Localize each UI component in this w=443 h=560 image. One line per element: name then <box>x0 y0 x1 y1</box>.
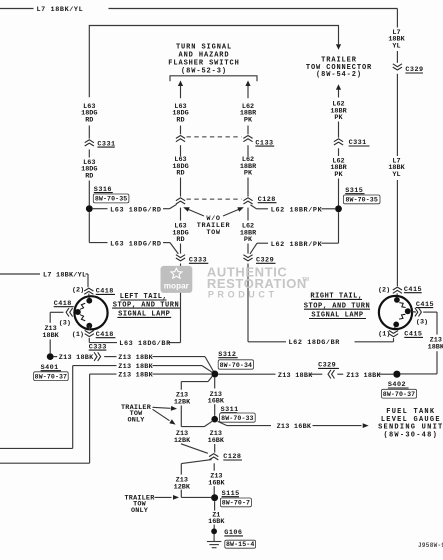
svg-text:PK: PK <box>244 236 253 244</box>
svg-text:(8W-54-2): (8W-54-2) <box>316 71 362 79</box>
svg-text:L62 18BR/PK: L62 18BR/PK <box>271 241 323 249</box>
right lamp terminal bottom <box>393 322 399 328</box>
wire right column above C329 <box>396 51 398 63</box>
connector C415 pin 2 (right lamp top) <box>378 286 422 295</box>
svg-text:ONLY: ONLY <box>131 507 149 515</box>
wire right lamp pin 3 to S402 (Z13 18BK) <box>401 312 443 374</box>
svg-text:L62 18BR/PK: L62 18BR/PK <box>271 206 323 214</box>
wire col1 segment <box>88 126 90 139</box>
connector C133 chevron col2 <box>176 136 185 142</box>
wire S316 to C128 left pin (L63 18DG/RD) <box>93 204 177 214</box>
wire col2 below C128 <box>180 208 182 221</box>
wire col3 below C128 <box>247 208 249 221</box>
wire right column below C329 <box>396 74 398 156</box>
wire left lamp pin 3 down to S401 (Z13 18BK) <box>42 312 63 353</box>
label TRAILER TOW CONNECTOR <box>306 57 372 79</box>
callout arrow to Z13 12BK wire <box>153 406 178 411</box>
svg-text:LEVEL GAUGE: LEVEL GAUGE <box>381 416 441 424</box>
label L62 18BR PK (col3 mid) <box>240 156 257 177</box>
wire left loop B to S312 (Z13 18BK) <box>0 372 211 464</box>
connector C331 (col1) <box>85 140 116 149</box>
wire col2 segment 2 <box>180 145 182 156</box>
splice S315 junction dot <box>335 205 342 212</box>
wire col4 segment 2 <box>338 148 340 156</box>
svg-text:8W-70-7: 8W-70-7 <box>222 500 250 507</box>
splice S401 junction dot <box>47 353 54 360</box>
svg-text:RD: RD <box>176 236 184 244</box>
svg-text:PK: PK <box>244 116 253 124</box>
splice S311 label <box>220 406 256 422</box>
wire col3 segment <box>247 126 249 135</box>
label L7 18BK YL (right column) <box>388 29 405 50</box>
splice S315 label <box>343 187 380 204</box>
label L62 18BR PK (col4 lower) <box>330 157 347 178</box>
wire Z13 12BK segment <box>180 406 182 427</box>
connector C333 (col2) <box>176 255 208 265</box>
svg-text:L62 18DG/BR: L62 18DG/BR <box>289 339 341 347</box>
svg-text:(3): (3) <box>59 319 71 327</box>
ground symbol <box>207 534 222 548</box>
callout arrow to S115 wire <box>155 495 180 500</box>
ground G106 label <box>224 529 255 548</box>
svg-text:8W-70-35: 8W-70-35 <box>95 196 127 203</box>
svg-text:12BK: 12BK <box>174 483 191 491</box>
svg-text:RD: RD <box>85 172 93 180</box>
splice S402 label <box>381 381 416 398</box>
left lamp bulb outline <box>74 296 107 329</box>
svg-text:L7 18BK/YL: L7 18BK/YL <box>37 6 84 14</box>
svg-text:L63 18DG/BR: L63 18DG/BR <box>119 340 171 348</box>
svg-text:ONLY: ONLY <box>127 416 145 424</box>
connector C128 dashed line and label <box>187 196 277 204</box>
svg-text:RD: RD <box>85 116 93 124</box>
wire Z13 12BK diagonal into C128 <box>181 444 208 454</box>
wire L7 18BK/YL feed to left lamp pin 2 <box>0 272 88 288</box>
svg-text:Z13 18BK: Z13 18BK <box>59 354 94 362</box>
svg-text:(8W-30-48): (8W-30-48) <box>384 432 439 440</box>
wire S315 to C128 right pin (L62 18BR/PK) <box>251 205 336 215</box>
label L62 18BR PK (col4 upper) <box>330 101 347 122</box>
svg-text:AND HAZARD: AND HAZARD <box>178 52 229 60</box>
wire L7 18BK/YL top horizontal run <box>0 6 397 14</box>
label FUEL TANK LEVEL GAUGE SENDING UNIT <box>378 408 443 439</box>
splice S312 junction dot <box>211 371 218 378</box>
splice S402 junction dot <box>393 371 400 378</box>
bracket flasher switch <box>170 76 257 82</box>
label Z13 12BK (below S311 jog) <box>174 430 191 445</box>
right lamp filament lower <box>399 314 405 319</box>
wire arrow col2 into flasher switch <box>178 81 183 99</box>
wire col2 segment <box>180 126 182 135</box>
wire col1 to splice <box>88 181 90 206</box>
wire stub right lamp pin2 into bulb <box>396 293 398 299</box>
label L63 18DG RD (col1 upper) <box>81 103 97 124</box>
connector C329 on Z13 run <box>318 362 339 379</box>
connector C333 on Z13 run label <box>89 343 107 351</box>
connector C329 (col3) <box>243 255 275 265</box>
wire col3 down to right lamp feed <box>248 264 394 348</box>
svg-text:(1): (1) <box>72 331 84 339</box>
wire S312 down to S311 (Z13 16BK) <box>208 378 225 416</box>
svg-text:12BK: 12BK <box>174 398 191 406</box>
wire arrow up into trailer tow connector <box>336 84 341 97</box>
connector C418 pin 3 (left lamp side) <box>54 300 74 327</box>
label W/O TRAILER TOW callout <box>197 215 231 237</box>
wire S401 to S312 (Z13 18BK) <box>54 354 214 371</box>
splice S115 label <box>220 490 251 507</box>
callout arrow to Z13 12BK corner <box>153 409 176 424</box>
svg-text:PK: PK <box>334 171 343 179</box>
svg-text:8W-70-34: 8W-70-34 <box>220 362 252 369</box>
wire right column to right lamp <box>396 180 398 286</box>
svg-text:YL: YL <box>392 42 400 50</box>
svg-text:(1): (1) <box>378 331 390 339</box>
right lamp terminal side <box>405 308 411 314</box>
connector C418 pin 2 (left lamp top) <box>72 287 115 296</box>
svg-text:L63 18DG/RD: L63 18DG/RD <box>110 206 161 214</box>
label L63 18DG RD (col1 lower) <box>81 159 97 180</box>
svg-text:18BK: 18BK <box>42 332 59 340</box>
wire S312 to S402 (Z13 18BK through C329) <box>218 372 393 380</box>
svg-text:8W-70-37: 8W-70-37 <box>383 391 415 398</box>
label L62 18BR PK (col3 upper) <box>240 103 257 124</box>
wire col3 segment 3 <box>247 178 249 197</box>
svg-text:SENDING UNIT: SENDING UNIT <box>378 424 443 432</box>
svg-text:RD: RD <box>176 170 184 178</box>
connector C128 (bottom) <box>209 453 242 461</box>
label L63 18DG RD (col2 mid) <box>172 156 188 177</box>
svg-text:PK: PK <box>334 114 343 122</box>
label J958W page id <box>418 542 443 549</box>
right lamp filament upper <box>399 303 405 308</box>
svg-text:16BK: 16BK <box>208 437 225 445</box>
callout arrow to col2 C128 <box>183 207 204 216</box>
label Z13 16BK (below S311) <box>208 430 225 445</box>
left lamp terminal bottom <box>86 323 92 329</box>
svg-text:PRODUCT: PRODUCT <box>208 290 278 300</box>
svg-text:8W-70-35: 8W-70-35 <box>345 197 377 204</box>
connector C415 pin 3 (right lamp side) <box>415 301 434 327</box>
callout arrow to col3 C128 <box>223 207 244 216</box>
watermark authentic restoration logo <box>161 264 310 299</box>
label LEFT TAIL STOP AND TURN SIGNAL LAMP <box>112 293 180 318</box>
splice S316 label <box>93 186 129 203</box>
wire Z13 16BK into C128 <box>214 444 216 453</box>
svg-text:J958W-9: J958W-9 <box>418 542 443 549</box>
splice S312 label <box>218 351 253 369</box>
svg-text:Z13 18BK: Z13 18BK <box>118 354 153 362</box>
wire col4 to splice <box>338 179 340 206</box>
connector C133 dashed line and label <box>187 137 275 147</box>
svg-text:18BK: 18BK <box>428 343 443 351</box>
label L62 18BR PK (col3 below C128) <box>240 223 257 244</box>
connector C329 (right column in-line) <box>393 64 424 74</box>
svg-text:TURN SIGNAL: TURN SIGNAL <box>176 43 232 51</box>
left lamp filament upper <box>80 303 85 309</box>
wire jog into S311 <box>181 421 212 426</box>
wire branch to trailer tow connector <box>89 26 341 98</box>
splice S115 junction dot <box>211 494 218 501</box>
svg-text:mopar: mopar <box>164 282 190 291</box>
svg-text:8W-70-33: 8W-70-33 <box>221 415 253 422</box>
label TURN SIGNAL AND HAZARD FLASHER SWITCH <box>168 43 239 75</box>
svg-text:8W-15-4: 8W-15-4 <box>226 541 254 548</box>
svg-text:(3): (3) <box>416 319 428 327</box>
splice S316 junction dot <box>86 205 93 212</box>
svg-text:8W-70-37: 8W-70-37 <box>35 373 67 380</box>
svg-text:FUEL TANK: FUEL TANK <box>386 408 435 416</box>
wire left loop A to S312 (Z13 18BK) <box>0 363 212 448</box>
label Z13 12BK (upper) <box>174 392 191 407</box>
connector C331 (col4) <box>334 139 370 147</box>
wire col2 down to left lamp feed <box>89 264 180 349</box>
wire S315 branch down to C329 (L62 18BR/PK) <box>250 212 339 254</box>
wire stub right lamp pin1 from bulb <box>394 325 396 330</box>
wire S316 branch down to C333 (L63 18DG/RD) <box>89 212 178 254</box>
svg-text:(8W-52-3): (8W-52-3) <box>181 67 227 75</box>
label TRAILER TOW ONLY (lower callout) <box>125 494 156 515</box>
wire C128 branch to Z13 12BK drop <box>174 460 212 498</box>
label RIGHT TAIL STOP AND TURN SIGNAL LAMP <box>304 293 371 320</box>
label L63 18DG RD (col2 below C128) <box>172 223 188 244</box>
wire col2 above C333 <box>180 244 182 254</box>
connector C128 chevron col3 <box>243 198 252 204</box>
svg-text:L63 18DG/RD: L63 18DG/RD <box>110 241 161 249</box>
right lamp terminal top <box>394 297 400 303</box>
connector C415 pin 1 (right lamp bottom) <box>378 331 423 339</box>
wire S115 to G106 (Z1 16BK) <box>208 501 225 528</box>
label L63 18DG RD (col2 upper) <box>172 103 188 124</box>
connector C133 chevron col3 <box>243 136 252 142</box>
svg-text:PK: PK <box>244 170 253 178</box>
left lamp terminal top <box>86 298 92 304</box>
left lamp terminal side <box>75 309 81 315</box>
label L7 18BK YL (right column lower) <box>388 157 405 178</box>
svg-text:12BK: 12BK <box>174 437 191 445</box>
connector C128 chevron col2 <box>176 198 185 204</box>
svg-text:Z13 18BK: Z13 18BK <box>278 372 313 380</box>
wire col2 segment 3 <box>180 178 182 197</box>
wire S312 jog to Z13 12BK drop <box>181 376 212 389</box>
wire L7 vertical drop at right <box>396 9 398 28</box>
svg-text:(2): (2) <box>72 287 84 295</box>
svg-text:16BK: 16BK <box>208 518 225 526</box>
svg-text:(2): (2) <box>378 287 390 295</box>
svg-text:Z13 16BK: Z13 16BK <box>277 423 312 431</box>
svg-text:YL: YL <box>392 171 400 179</box>
splice S401 label <box>34 364 69 381</box>
svg-text:TM: TM <box>302 277 309 283</box>
svg-text:16BK: 16BK <box>208 398 225 406</box>
connector C333 chevrons on Z13 run <box>94 352 101 361</box>
label TRAILER TOW ONLY (upper callout) <box>121 404 152 424</box>
ground G106 junction dot <box>211 528 217 534</box>
svg-text:16BK: 16BK <box>208 480 225 488</box>
connector C418 pin 1 (left lamp bottom) <box>72 326 116 339</box>
splice S311 junction dot <box>211 416 218 423</box>
svg-text:RD: RD <box>176 116 184 124</box>
wire S311 to fuel tank sending unit (Z13 16BK) <box>218 421 369 431</box>
wire arrow col3 into flasher switch <box>245 81 250 99</box>
left lamp filament lower <box>80 315 85 321</box>
wire col1 segment 2 <box>88 150 90 158</box>
wire col3 segment 2 <box>247 145 249 156</box>
svg-text:Z13 18BK: Z13 18BK <box>118 372 153 380</box>
wire stub left lamp pin2 into bulb <box>88 294 91 301</box>
svg-text:TOW: TOW <box>206 229 221 237</box>
svg-text:Z13 18BK: Z13 18BK <box>118 363 153 371</box>
wire col4 segment <box>338 122 340 138</box>
wire C128 to S115 (Z13 16BK) <box>208 463 225 494</box>
svg-text:L7 18BK/YL: L7 18BK/YL <box>43 272 86 280</box>
right lamp bulb outline <box>379 296 412 329</box>
wire col3 above C329 <box>247 244 249 254</box>
svg-text:Z13 18BK: Z13 18BK <box>346 372 381 380</box>
